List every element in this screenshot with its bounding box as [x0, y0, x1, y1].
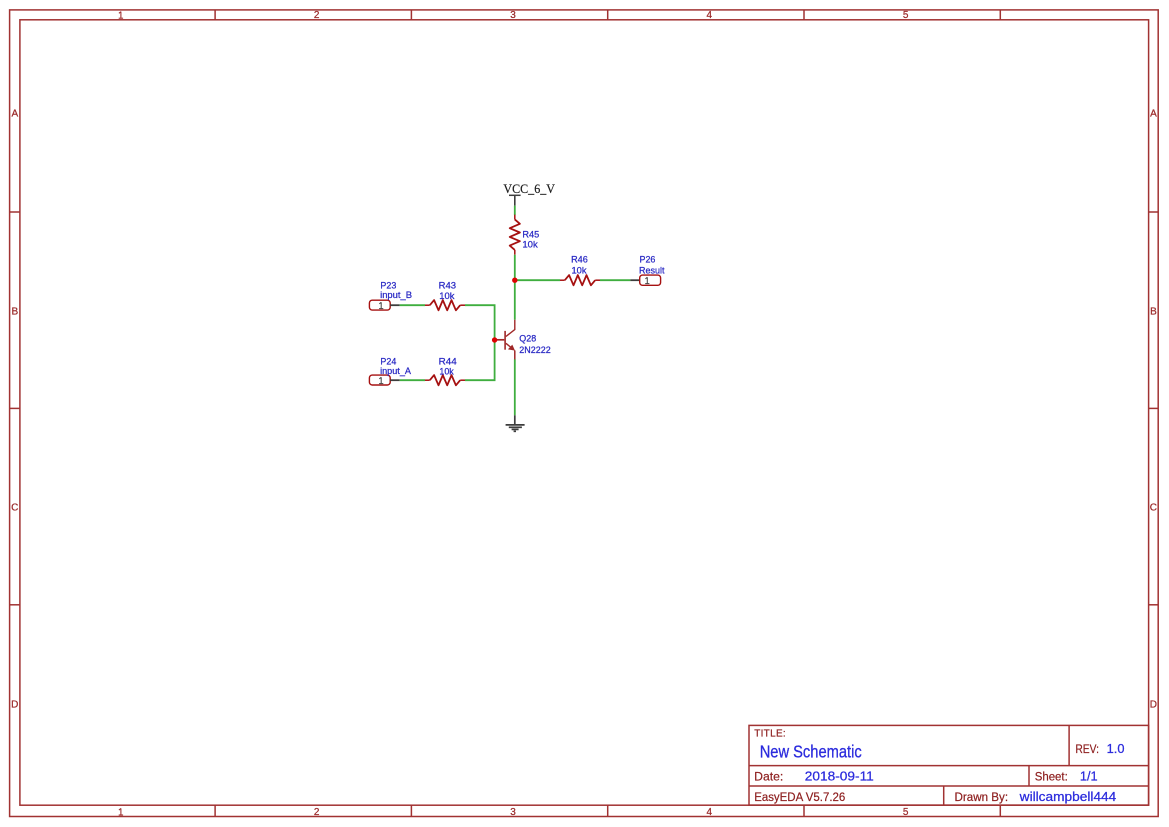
- svg-text:willcampbell444: willcampbell444: [1019, 790, 1117, 804]
- svg-text:10k: 10k: [439, 367, 454, 378]
- frame tick top 3: [607, 10, 609, 20]
- transistor Q28 collector: [506, 320, 515, 337]
- svg-text:New Schematic: New Schematic: [760, 742, 862, 762]
- frame tick bottom 4: [803, 805, 805, 816]
- svg-text:1.0: 1.0: [1107, 742, 1125, 756]
- wire P24 to R44: [400, 379, 425, 381]
- resistor R45: [514, 215, 516, 220]
- wire R46 to P26: [600, 279, 630, 281]
- title block row divider 1: [749, 765, 1149, 767]
- svg-text:P26: P26: [640, 254, 656, 265]
- svg-text:10k: 10k: [439, 291, 454, 302]
- svg-text:B: B: [1150, 307, 1157, 318]
- resistor R46: [560, 279, 565, 281]
- transistor Q28 emitter arrow: [508, 345, 515, 351]
- title block row divider 2: [749, 785, 1149, 787]
- wire R44 to base node: [465, 340, 495, 380]
- svg-text:Drawn By:: Drawn By:: [955, 792, 1009, 804]
- wire R45 to node: [514, 255, 516, 320]
- frame tick top 4: [803, 10, 805, 20]
- frame tick bottom 5: [999, 805, 1001, 816]
- frame tick bottom 2: [410, 805, 412, 816]
- svg-text:4: 4: [707, 10, 713, 21]
- svg-text:TITLE:: TITLE:: [754, 729, 786, 740]
- svg-text:5: 5: [903, 807, 909, 818]
- svg-text:Sheet:: Sheet:: [1035, 772, 1068, 784]
- pin P23 number 1: [379, 302, 383, 308]
- pin stub P26: [630, 279, 639, 281]
- transistor Q28 emitter stub: [514, 350, 516, 360]
- pin P23 body: [369, 300, 390, 310]
- title block REV divider: [1068, 725, 1070, 765]
- frame tick left 3: [10, 604, 20, 606]
- svg-text:10k: 10k: [572, 265, 587, 276]
- junction node collector: [512, 278, 517, 283]
- transistor Q28 emitter: [506, 343, 513, 349]
- pin P24 number 1: [379, 377, 383, 383]
- svg-text:R45: R45: [522, 229, 539, 240]
- svg-text:input_A: input_A: [380, 366, 412, 377]
- frame number bottom 1: [119, 808, 123, 815]
- resistor R43: [425, 304, 430, 306]
- pin stub P23: [390, 304, 400, 306]
- wire VCC to R45: [514, 206, 516, 215]
- svg-text:R43: R43: [439, 281, 456, 292]
- wire emitter to ground: [514, 359, 516, 415]
- pin P24 body: [369, 375, 390, 385]
- frame tick bottom 1: [214, 805, 216, 816]
- svg-text:2018-09-11: 2018-09-11: [805, 770, 874, 784]
- svg-text:Q28: Q28: [519, 334, 536, 345]
- svg-text:EasyEDA V5.7.26: EasyEDA V5.7.26: [754, 792, 845, 804]
- title block Sheet divider: [1028, 766, 1030, 786]
- frame tick top 2: [410, 10, 412, 20]
- frame tick right 3: [1149, 604, 1159, 606]
- svg-text:10k: 10k: [522, 240, 538, 251]
- resistor R44: [425, 379, 430, 381]
- svg-text:4: 4: [707, 807, 713, 818]
- svg-text:2N2222: 2N2222: [519, 345, 550, 356]
- wire R43 to base node: [465, 305, 495, 340]
- frame tick top 1: [214, 10, 216, 20]
- svg-text:VCC_6_V: VCC_6_V: [503, 181, 555, 196]
- title block DrawnBy divider: [943, 786, 945, 805]
- title block border: [749, 725, 1149, 805]
- frame number top 1: [119, 12, 123, 19]
- frame tick right 2: [1149, 407, 1159, 409]
- frame tick top 5: [999, 10, 1001, 20]
- frame tick right 1: [1149, 211, 1159, 213]
- frame tick bottom 3: [607, 805, 609, 816]
- svg-text:B: B: [11, 307, 18, 318]
- power flag VCC bar: [509, 194, 521, 196]
- svg-text:R46: R46: [571, 254, 588, 265]
- svg-text:3: 3: [510, 10, 516, 21]
- svg-text:5: 5: [903, 10, 909, 21]
- svg-text:C: C: [1150, 503, 1157, 514]
- svg-text:C: C: [11, 503, 18, 514]
- svg-text:2: 2: [314, 807, 320, 818]
- svg-text:D: D: [11, 700, 18, 711]
- pin P26 body: [640, 275, 661, 285]
- svg-text:2: 2: [314, 10, 320, 21]
- frame tick left 2: [10, 407, 20, 409]
- svg-text:D: D: [1150, 700, 1157, 711]
- svg-text:Result: Result: [639, 265, 665, 276]
- svg-text:input_B: input_B: [380, 290, 412, 301]
- svg-text:1/1: 1/1: [1080, 770, 1098, 784]
- frame tick left 1: [10, 211, 20, 213]
- pin stub P24: [390, 379, 400, 381]
- pin P26 number 1: [645, 277, 649, 283]
- wire P23 to R43: [400, 304, 425, 306]
- power flag VCC pin stub: [514, 195, 516, 205]
- svg-text:Date:: Date:: [754, 772, 783, 784]
- transistor Q28 base lead: [495, 339, 505, 341]
- wire node to R46: [515, 279, 560, 281]
- svg-text:A: A: [1150, 109, 1157, 120]
- junction node base: [492, 337, 497, 342]
- transistor Q28 base bar: [504, 331, 506, 350]
- svg-text:A: A: [11, 109, 18, 120]
- svg-text:REV:: REV:: [1075, 744, 1099, 756]
- ground symbol: [506, 415, 525, 431]
- svg-text:3: 3: [510, 807, 516, 818]
